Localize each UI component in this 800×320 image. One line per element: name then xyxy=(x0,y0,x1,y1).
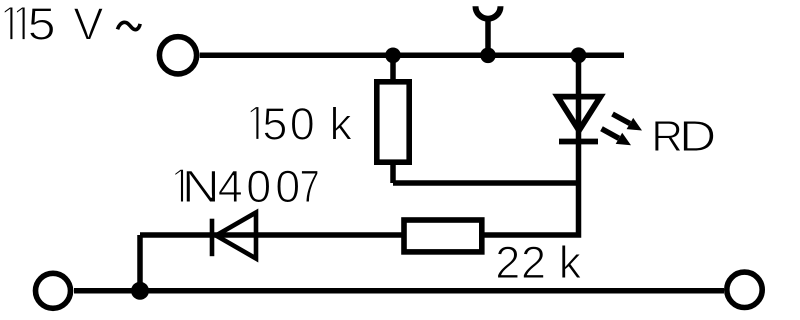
svg-text:D: D xyxy=(679,112,716,161)
svg-text:4: 4 xyxy=(218,161,243,212)
svg-text:0: 0 xyxy=(246,161,271,212)
svg-text:0: 0 xyxy=(275,161,300,212)
svg-text:2: 2 xyxy=(521,237,546,288)
svg-text:5: 5 xyxy=(262,98,287,149)
svg-text:2: 2 xyxy=(495,237,520,288)
svg-text:7: 7 xyxy=(300,161,320,212)
svg-text:5: 5 xyxy=(28,0,56,50)
svg-text:V: V xyxy=(73,0,103,50)
svg-text:k: k xyxy=(330,98,353,149)
svg-text:k: k xyxy=(559,237,582,288)
svg-text:N: N xyxy=(182,161,220,212)
svg-text:0: 0 xyxy=(290,98,315,149)
